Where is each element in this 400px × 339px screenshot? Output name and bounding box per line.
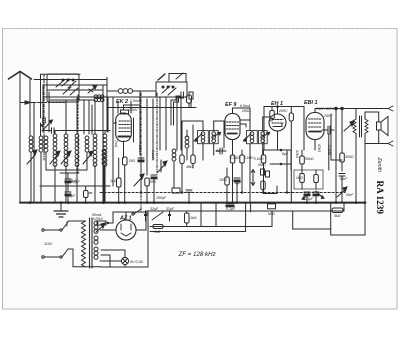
speaker terminals — [356, 106, 393, 146]
osc coil L10 — [102, 149, 106, 203]
title ZF — [178, 251, 217, 258]
svg-text:250V: 250V — [128, 108, 138, 112]
resistor R12 — [332, 208, 343, 213]
resistor R3 — [145, 178, 150, 203]
T1 leads — [182, 121, 224, 160]
resistor R2 — [123, 157, 128, 203]
ground — [54, 203, 68, 217]
svg-text:32μF: 32μF — [166, 207, 175, 211]
svg-text:5MΩ: 5MΩ — [258, 163, 266, 167]
svg-text:6V 0,3A: 6V 0,3A — [130, 260, 143, 264]
svg-text:RA 1239: RA 1239 — [375, 181, 385, 215]
svg-text:1kΩ: 1kΩ — [190, 216, 197, 220]
pilot wire — [100, 250, 125, 261]
tube AZ1 — [100, 212, 146, 240]
labels — [116, 99, 317, 222]
junction dots left — [29, 191, 367, 204]
svg-text:265V: 265V — [323, 114, 333, 118]
svg-text:0,3MΩ: 0,3MΩ — [230, 156, 240, 160]
cap C7 — [186, 190, 192, 203]
tube EH1 — [269, 107, 286, 151]
svg-text:50pF: 50pF — [234, 181, 242, 185]
IF transformer T2 — [243, 131, 269, 144]
svg-text:1kΩ: 1kΩ — [110, 179, 117, 183]
svg-text:100pF: 100pF — [156, 196, 167, 200]
svg-text:5kΩ: 5kΩ — [334, 214, 341, 218]
wire mid rail — [40, 185, 110, 187]
svg-text:0,1μF: 0,1μF — [66, 194, 76, 198]
band switch S1 box — [47, 74, 79, 102]
resistor R10 — [153, 225, 163, 229]
trimmer C1 — [88, 85, 97, 93]
EH1 cathode network — [261, 150, 277, 176]
cap C4 — [138, 158, 144, 193]
pot trimmer P1 — [158, 160, 167, 172]
EBl1 bias network box — [294, 170, 323, 189]
diode load boxes — [261, 169, 270, 193]
svg-text:50nF: 50nF — [340, 177, 348, 181]
EH1 shield box — [264, 107, 304, 151]
output transformer T3 — [353, 109, 368, 145]
svg-text:300Ω: 300Ω — [345, 155, 354, 159]
filter cap C13 — [152, 211, 171, 221]
svg-text:1kΩ: 1kΩ — [154, 230, 161, 234]
volume pot P2 — [251, 170, 255, 186]
resistor R5 — [240, 150, 245, 193]
antenna lead-in arrow — [20, 101, 66, 104]
power transformer T4 — [68, 218, 98, 268]
resistor R1 — [117, 158, 122, 203]
svg-text:EK 2: EK 2 — [116, 99, 128, 105]
caps below box — [302, 191, 324, 203]
svg-text:0,1MΩ: 0,1MΩ — [254, 157, 264, 161]
cap C2b — [65, 192, 71, 203]
wire left loop verticals — [30, 74, 44, 202]
cap C10 on bus — [226, 204, 234, 207]
AVC dashed line — [100, 192, 345, 194]
cap C9 — [234, 178, 240, 203]
resistor R4 — [230, 150, 235, 203]
trimmer C5 — [134, 174, 144, 186]
rotated value labels — [114, 140, 331, 161]
right edge wires — [331, 109, 365, 203]
svg-text:0,1MΩ: 0,1MΩ — [244, 156, 254, 160]
svg-text:47kΩ: 47kΩ — [317, 144, 321, 152]
svg-text:0,5μF: 0,5μF — [71, 180, 81, 184]
resistor Rg — [187, 95, 192, 108]
svg-text:0,1mA: 0,1mA — [151, 150, 155, 161]
resistor R6 — [225, 168, 230, 203]
svg-text:50Ω: 50Ω — [129, 159, 136, 163]
svg-text:0,1μF: 0,1μF — [305, 197, 314, 201]
svg-text:100Ω: 100Ω — [219, 178, 227, 182]
wire top rails — [34, 74, 107, 79]
EF9 screen lead — [224, 108, 270, 148]
svg-text:EF 9: EF 9 — [225, 102, 236, 108]
svg-text:0,1MΩ: 0,1MΩ — [327, 145, 331, 156]
svg-text:4MΩ: 4MΩ — [186, 165, 193, 169]
left of T1 verticals — [180, 121, 195, 193]
HT wire from AZ1 — [113, 211, 146, 230]
diode load resistor R13 — [261, 181, 277, 194]
svg-text:AZ 1: AZ 1 — [119, 216, 132, 222]
schematic ink layer — [9, 72, 394, 269]
oscillator switch S2 box — [156, 73, 187, 97]
svg-text:1MΩ: 1MΩ — [296, 176, 303, 180]
svg-text:8μF: 8μF — [282, 152, 289, 156]
svg-text:265V: 265V — [278, 109, 288, 113]
mains switch link — [132, 209, 148, 215]
coil bank L2-L9 — [29, 134, 107, 167]
coil bank top rail — [42, 128, 110, 134]
junction dots EH1 — [276, 105, 282, 165]
resistor R0 — [84, 186, 93, 203]
antenna — [9, 72, 32, 203]
component value labels — [44, 96, 354, 264]
svg-text:7mA: 7mA — [114, 140, 118, 148]
resistor R7 — [270, 107, 275, 122]
tube EF9 — [225, 108, 240, 150]
ground bus — [20, 202, 365, 204]
osc coil L11 — [172, 149, 176, 188]
dial lamp — [121, 250, 128, 267]
resistor R8 — [300, 150, 305, 170]
EK2 stage verticals — [108, 91, 153, 175]
output top rail — [315, 107, 356, 110]
svg-text:2,5mA: 2,5mA — [129, 99, 141, 103]
svg-text:1mA: 1mA — [138, 145, 142, 153]
tone trimmer P3 — [337, 187, 347, 203]
wire rails cluster1 — [43, 78, 117, 203]
primary trimmer — [344, 121, 354, 131]
EBl1 grid cap — [322, 126, 334, 134]
svg-text:ZF = 128 kHz: ZF = 128 kHz — [178, 251, 217, 258]
svg-text:Zenith: Zenith — [376, 157, 382, 173]
padder C3 — [189, 92, 193, 107]
coil bank bottom leads — [31, 152, 105, 203]
wire EH1 bottom — [270, 150, 291, 170]
brand Zenith — [375, 157, 385, 215]
resistor R9 — [340, 109, 345, 172]
svg-text:EBl 1: EBl 1 — [304, 100, 317, 106]
EBl1 verticals — [287, 107, 336, 203]
cap C11 — [339, 174, 345, 189]
svg-text:110V: 110V — [44, 242, 53, 246]
trimmer on secondary — [96, 223, 105, 232]
svg-text:50pF: 50pF — [216, 149, 225, 153]
svg-text:NSD: NSD — [268, 212, 275, 216]
svg-text:50nF: 50nF — [346, 193, 354, 197]
EK2 top coil — [107, 89, 156, 94]
svg-text:7617, 8074 A: 7617, 8074 A — [316, 107, 338, 111]
cap C2 — [41, 118, 53, 128]
fuse F1 — [97, 221, 113, 225]
T2 leads — [240, 108, 270, 203]
svg-text:50Ω: 50Ω — [150, 180, 157, 184]
below-bus rails — [146, 203, 365, 235]
cap C6 — [151, 175, 157, 203]
svg-text:2Ω: 2Ω — [97, 96, 103, 100]
svg-text:50kΩ: 50kΩ — [305, 157, 314, 161]
svg-text:EH 1: EH 1 — [271, 101, 283, 107]
speaker field box — [268, 204, 276, 209]
svg-text:6,5mA: 6,5mA — [240, 104, 251, 108]
switch S3 mains — [42, 222, 101, 267]
filter cap C12 — [144, 211, 147, 221]
tube EK2 — [116, 105, 140, 158]
svg-text:32μF: 32μF — [150, 207, 159, 211]
power bottom rail — [101, 212, 148, 267]
tube EBl1 — [306, 109, 324, 151]
cap C2a — [65, 173, 71, 192]
cap C8 — [216, 148, 226, 154]
grid step wires — [171, 92, 184, 125]
svg-text:0,1μF: 0,1μF — [226, 207, 236, 211]
speaker LS — [377, 112, 389, 144]
osc section verticals — [108, 92, 196, 211]
resistor R11 — [185, 212, 190, 227]
svg-text:J=20kV: J=20kV — [92, 217, 104, 221]
svg-text:265V: 265V — [241, 109, 251, 113]
coil box L12 — [172, 188, 180, 193]
IF transformer T1 — [194, 131, 220, 144]
trimmer arrows on coils — [27, 150, 93, 164]
svg-text:47kΩ: 47kΩ — [295, 150, 299, 158]
